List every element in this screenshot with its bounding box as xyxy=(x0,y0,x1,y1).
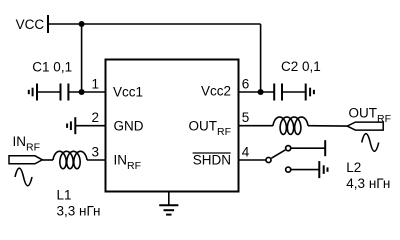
wire pin 5 to L2 xyxy=(239,125,274,127)
wire VCC rail xyxy=(48,23,261,25)
svg-text:L1: L1 xyxy=(57,188,72,203)
op-amp U1 box xyxy=(106,60,239,192)
svg-text:Vcc2: Vcc2 xyxy=(201,84,231,99)
switch lever xyxy=(271,150,285,158)
terminal IN xyxy=(9,156,42,164)
wire C2 to ground xyxy=(282,91,306,93)
wire ground to C1 xyxy=(37,91,61,93)
source sine input xyxy=(15,168,32,186)
terminal OUT xyxy=(347,122,383,130)
svg-text:4,3 нГн: 4,3 нГн xyxy=(346,176,390,191)
wire L1 to pin 3 xyxy=(87,159,106,161)
power terminal VCC xyxy=(47,15,49,33)
svg-text:L2: L2 xyxy=(346,160,361,175)
inductor L2 xyxy=(273,117,308,134)
svg-text:3: 3 xyxy=(91,144,99,159)
inductor L1 xyxy=(53,151,87,168)
wire C1 to pin 1 xyxy=(68,91,105,93)
wire throw to ground xyxy=(291,169,319,171)
svg-text:C1 0,1: C1 0,1 xyxy=(32,59,72,74)
svg-text:2: 2 xyxy=(91,110,99,125)
svg-text:C2 0,1: C2 0,1 xyxy=(281,59,321,74)
ground switch xyxy=(318,161,320,178)
wire rail to pin 6 xyxy=(260,24,262,92)
switch throw contact upper xyxy=(286,146,291,151)
wire pin 4 to switch xyxy=(239,159,266,161)
switch throw contact lower xyxy=(286,167,291,172)
ground pin 2 xyxy=(74,117,76,134)
node junction pin 6 net xyxy=(258,89,264,95)
svg-text:Vcc1: Vcc1 xyxy=(113,84,143,99)
svg-text:GND: GND xyxy=(114,118,144,133)
ground C2 xyxy=(305,84,307,101)
wire rail to pin 1 xyxy=(81,24,83,92)
svg-text:6: 6 xyxy=(242,76,250,91)
capacitor C2 xyxy=(273,84,275,101)
node junction pin 1 net xyxy=(79,89,85,95)
switch pole contact xyxy=(266,157,271,162)
wire L2 to OUT xyxy=(308,125,347,127)
svg-text:VCC: VCC xyxy=(16,17,45,32)
terminal open xyxy=(324,140,326,156)
svg-text:SHDN: SHDN xyxy=(193,153,231,168)
svg-text:1: 1 xyxy=(91,76,99,91)
wire throw to open terminal xyxy=(291,147,325,149)
wire IC ground stem xyxy=(168,192,170,206)
wire pin 6 to C2 xyxy=(239,91,275,93)
ground IC xyxy=(159,204,178,206)
svg-text:3,3 нГн: 3,3 нГн xyxy=(57,203,101,218)
capacitor C1 xyxy=(60,84,62,101)
ground C1 xyxy=(36,84,38,101)
node junction VCC rail xyxy=(79,21,85,27)
wire ground to pin 2 xyxy=(75,125,105,127)
wire IN to L1 xyxy=(42,159,53,161)
load sine output xyxy=(362,134,379,152)
svg-text:4: 4 xyxy=(242,144,250,159)
svg-text:5: 5 xyxy=(242,110,250,125)
